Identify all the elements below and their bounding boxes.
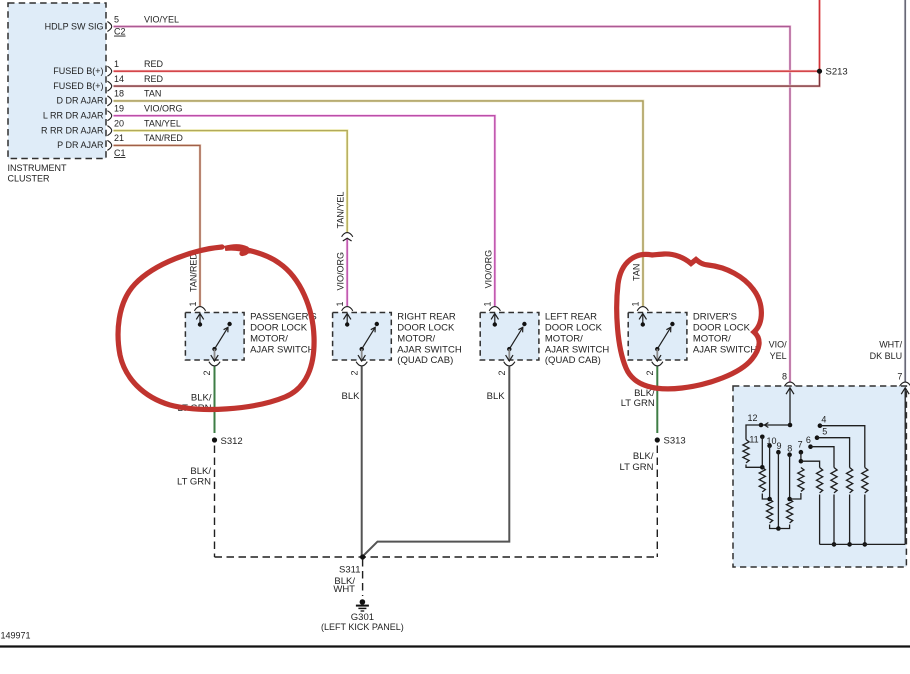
- svg-text:WHT: WHT: [333, 584, 355, 595]
- red annotation circle around driver switch: [617, 254, 762, 389]
- bus junction R7: [832, 542, 837, 547]
- wire BLK/LT GRN passenger switch to S312: [214, 367, 216, 434]
- left rear door lock motor/ajar switch pivot dot: [507, 347, 511, 351]
- svg-text:7: 7: [798, 439, 803, 449]
- right rear door lock motor/ajar switch box: [333, 313, 392, 361]
- svg-text:(LEFT KICK PANEL): (LEFT KICK PANEL): [321, 622, 404, 632]
- right rear door lock motor/ajar switch pin 2 connector: [356, 362, 367, 366]
- svg-text:DOOR LOCK: DOOR LOCK: [250, 323, 308, 334]
- resistor R5: [798, 468, 804, 492]
- svg-text:S312: S312: [221, 436, 243, 447]
- wire R7 bottom to bus: [833, 495, 835, 545]
- wire TAN/YEL pin20 to inline connector: [114, 131, 348, 232]
- cluster pin 21 connector: [107, 140, 111, 150]
- right rear door lock motor/ajar switch switch blade: [362, 327, 376, 349]
- splice S311: [360, 554, 365, 559]
- driver's door lock motor/ajar switch fixed contact dot: [641, 322, 645, 326]
- resistor R7: [831, 468, 837, 493]
- resistor R6: [816, 468, 822, 493]
- pin 7 internal dot: [799, 450, 804, 455]
- wire R1 bottom to node F: [746, 465, 762, 468]
- svg-text:4: 4: [821, 415, 826, 425]
- wire node E to resistor R6: [801, 461, 820, 467]
- node G junction: [767, 497, 772, 502]
- passenger door lock motor/ajar switch pin 2 connector: [209, 362, 220, 366]
- svg-text:TAN: TAN: [144, 89, 161, 99]
- resistor R3: [766, 499, 772, 523]
- svg-text:LEFT REAR: LEFT REAR: [545, 312, 597, 323]
- right rear door lock motor/ajar switch pivot dot: [360, 347, 364, 351]
- svg-text:S213: S213: [826, 67, 848, 78]
- module pin 8 entry arrow: [789, 389, 791, 425]
- resistor R1: [743, 440, 749, 463]
- driver's door lock motor/ajar switch pin 2 connector: [652, 362, 663, 366]
- pin 8 internal dot: [787, 452, 792, 457]
- svg-text:AJAR SWITCH: AJAR SWITCH: [250, 344, 315, 355]
- driver's door lock motor/ajar switch pin 1 connector: [637, 307, 648, 311]
- svg-text:2: 2: [202, 370, 212, 375]
- svg-text:RED: RED: [144, 74, 164, 84]
- inline connector arrow: [343, 238, 352, 241]
- svg-text:2: 2: [497, 370, 507, 375]
- svg-text:9: 9: [776, 441, 781, 451]
- svg-text:BLK/: BLK/: [633, 451, 654, 462]
- node I junction: [787, 497, 792, 502]
- wire RED pin1 to S213: [114, 70, 818, 73]
- svg-text:DK BLU: DK BLU: [870, 351, 903, 361]
- node H junction: [776, 526, 781, 531]
- passenger door lock motor/ajar switch throw contact dot: [227, 322, 231, 326]
- svg-text:MOTOR/: MOTOR/: [693, 333, 731, 344]
- svg-text:2: 2: [645, 370, 655, 375]
- svg-text:VIO/YEL: VIO/YEL: [144, 14, 179, 24]
- wire BLK/LT GRN driver switch to S313: [656, 367, 658, 434]
- right rear door lock motor/ajar switch throw contact dot: [375, 322, 379, 326]
- svg-text:D DR AJAR: D DR AJAR: [56, 96, 104, 106]
- resistor R4: [786, 499, 792, 523]
- svg-text:(QUAD CAB): (QUAD CAB): [397, 355, 453, 366]
- wire RED from top to S213: [818, 0, 821, 70]
- svg-text:TAN/YEL: TAN/YEL: [144, 118, 181, 128]
- resistor R8: [846, 468, 852, 493]
- wire R2 bottom to node G: [762, 494, 769, 500]
- bus junction R9: [863, 542, 868, 547]
- svg-text:VIO/ORG: VIO/ORG: [144, 104, 183, 114]
- svg-text:C2: C2: [114, 27, 126, 37]
- pin 12 dot: [759, 423, 764, 428]
- node E junction: [799, 459, 804, 464]
- wire TAN pin18 to driver's switch: [114, 101, 644, 306]
- svg-text:YEL: YEL: [770, 351, 787, 361]
- instrument cluster box: [8, 3, 106, 159]
- svg-text:AJAR SWITCH: AJAR SWITCH: [693, 344, 758, 355]
- cluster pin 1 connector: [107, 66, 111, 76]
- svg-text:RIGHT REAR: RIGHT REAR: [397, 312, 456, 323]
- svg-text:DOOR LOCK: DOOR LOCK: [693, 323, 751, 334]
- pin 4 dot: [818, 423, 823, 428]
- resistor R2: [759, 467, 765, 492]
- cluster pin 18 connector: [107, 96, 111, 106]
- svg-text:TAN/RED: TAN/RED: [144, 133, 183, 143]
- pin 6 dot: [808, 444, 813, 449]
- svg-text:DOOR LOCK: DOOR LOCK: [545, 323, 603, 334]
- svg-text:21: 21: [114, 133, 124, 143]
- svg-text:5: 5: [822, 426, 827, 436]
- svg-text:149971: 149971: [1, 631, 31, 641]
- ground G301 symbol: [356, 599, 369, 611]
- svg-text:20: 20: [114, 118, 124, 128]
- svg-text:INSTRUMENT: INSTRUMENT: [8, 163, 67, 173]
- passenger door lock motor/ajar switch motor arrow to pin 2: [214, 349, 216, 359]
- svg-text:1: 1: [114, 59, 119, 69]
- svg-text:PASSENGER'S: PASSENGER'S: [250, 312, 317, 323]
- wire pin 10 down to node G: [769, 446, 771, 499]
- resistor R9: [862, 468, 868, 493]
- cluster pin 14 connector: [107, 81, 111, 91]
- svg-text:BLK: BLK: [342, 391, 361, 402]
- passenger door lock motor/ajar switch switch blade: [215, 327, 229, 349]
- cluster pin 20 connector: [107, 126, 111, 136]
- splice S312: [212, 437, 217, 442]
- svg-text:P DR AJAR: P DR AJAR: [57, 140, 104, 150]
- passenger door lock motor/ajar switch fixed contact dot: [198, 322, 202, 326]
- svg-text:RED: RED: [144, 59, 164, 69]
- wire VIO/YEL pin5 to illumination module pin 8: [114, 27, 791, 383]
- wire pin 6 to resistor R7: [811, 447, 835, 468]
- svg-text:6: 6: [806, 435, 811, 445]
- wire BLK left rear switch routed to S311: [364, 367, 510, 556]
- dashed wire S312 down: [214, 446, 216, 558]
- left rear door lock motor/ajar switch switch blade: [509, 327, 523, 349]
- svg-text:LT GRN: LT GRN: [177, 476, 211, 487]
- wire pin 11 down to node F: [761, 437, 763, 468]
- bus junction R8: [847, 542, 852, 547]
- left rear door lock motor/ajar switch box: [480, 313, 539, 361]
- wire TAN/RED pin21 to passenger switch: [114, 145, 201, 306]
- module pin 8 connector: [784, 382, 795, 386]
- right rear door lock motor/ajar switch motor arrow to pin 2: [361, 349, 363, 359]
- inline connector TAN/YEL to VIO/ORG: [342, 233, 353, 237]
- dashed ground bus wire: [215, 556, 658, 558]
- left rear door lock motor/ajar switch pin 1 arrow: [494, 314, 496, 324]
- module pin 7 connector: [900, 382, 910, 386]
- wire R3 bottom to node H: [770, 525, 779, 529]
- wire R5 bottom to node I: [790, 493, 801, 499]
- bottom border line: [0, 645, 910, 647]
- svg-text:14: 14: [114, 74, 124, 84]
- svg-text:11: 11: [749, 435, 758, 445]
- wire pin 5 to resistor R8: [817, 438, 850, 468]
- module pin 7 entry arrow: [904, 389, 906, 544]
- svg-text:TAN/YEL: TAN/YEL: [336, 192, 346, 229]
- pin 11 dot: [760, 435, 765, 440]
- wire pin 4 to resistor R9: [820, 426, 865, 468]
- svg-text:LT GRN: LT GRN: [621, 398, 655, 409]
- svg-text:LT GRN: LT GRN: [620, 462, 654, 473]
- cluster pin 5 connector: [107, 22, 111, 32]
- svg-text:MOTOR/: MOTOR/: [250, 333, 288, 344]
- svg-text:AJAR SWITCH: AJAR SWITCH: [545, 344, 610, 355]
- passenger door lock motor/ajar switch box: [185, 313, 244, 361]
- svg-text:19: 19: [114, 104, 124, 114]
- svg-text:18: 18: [114, 89, 124, 99]
- svg-text:1: 1: [631, 301, 641, 306]
- svg-text:7: 7: [897, 371, 902, 381]
- svg-text:R RR DR AJAR: R RR DR AJAR: [41, 125, 104, 135]
- svg-text:FUSED B(+): FUSED B(+): [53, 81, 103, 91]
- svg-text:CLUSTER: CLUSTER: [8, 174, 51, 184]
- svg-text:AJAR SWITCH: AJAR SWITCH: [397, 344, 462, 355]
- left rear door lock motor/ajar switch fixed contact dot: [493, 322, 497, 326]
- svg-text:10: 10: [766, 436, 776, 446]
- svg-text:1: 1: [188, 301, 198, 306]
- cluster pin 19 connector: [107, 111, 111, 121]
- pin 10 dot: [767, 443, 772, 448]
- svg-text:2: 2: [349, 370, 359, 375]
- svg-text:1: 1: [335, 301, 345, 306]
- driver's door lock motor/ajar switch throw contact dot: [670, 322, 674, 326]
- passenger door lock motor/ajar switch pin 1 arrow: [199, 314, 201, 324]
- svg-text:VIO/: VIO/: [769, 340, 788, 350]
- svg-text:C1: C1: [114, 148, 126, 158]
- splice S313: [655, 437, 660, 442]
- svg-text:BLK: BLK: [487, 391, 506, 402]
- left rear door lock motor/ajar switch pin 2 connector: [504, 362, 515, 366]
- wire BLK right rear switch to S311: [361, 367, 363, 557]
- dashed wire S313 down: [656, 446, 658, 558]
- driver's door lock motor/ajar switch box: [628, 313, 687, 361]
- passenger door lock motor/ajar switch pivot dot: [212, 347, 216, 351]
- svg-text:WHT/: WHT/: [879, 340, 902, 350]
- svg-text:VIO/ORG: VIO/ORG: [483, 250, 493, 289]
- svg-text:DRIVER'S: DRIVER'S: [693, 312, 737, 323]
- svg-text:TAN/RED: TAN/RED: [189, 253, 199, 292]
- dashed wire S311 to ground: [362, 559, 364, 596]
- svg-text:8: 8: [787, 443, 792, 453]
- wire pin 7 down to node E: [800, 452, 802, 461]
- wire VIO/ORG pin19 to left rear switch: [114, 116, 495, 306]
- pin 5 dot: [815, 435, 820, 440]
- svg-text:(QUAD CAB): (QUAD CAB): [545, 355, 601, 366]
- driver's door lock motor/ajar switch switch blade: [657, 327, 671, 349]
- illumination module box: [733, 386, 906, 567]
- wire pin 12 to resistor R1: [746, 425, 761, 440]
- driver's door lock motor/ajar switch pivot dot: [655, 347, 659, 351]
- right rear door lock motor/ajar switch pin 1 connector: [342, 307, 353, 311]
- left rear door lock motor/ajar switch motor arrow to pin 2: [508, 349, 510, 359]
- wire RED pin14 up to S213: [114, 71, 820, 86]
- node A top junction: [788, 423, 793, 428]
- driver's door lock motor/ajar switch motor arrow to pin 2: [656, 349, 658, 359]
- svg-text:L RR DR AJAR: L RR DR AJAR: [43, 111, 104, 121]
- wire VIO/ORG inline connector to right rear switch: [346, 238, 349, 306]
- red annotation circle around passenger switch: [118, 247, 314, 410]
- wire junction A to pin 12: [761, 424, 790, 426]
- node F junction: [760, 465, 765, 470]
- wire pin 9 down to node H: [777, 452, 779, 528]
- svg-text:DOOR LOCK: DOOR LOCK: [397, 323, 455, 334]
- wire WHT/DK BLU from top to illumination module pin 7: [904, 0, 907, 383]
- svg-text:S313: S313: [664, 436, 686, 447]
- module internal bus wire: [820, 543, 906, 545]
- left rear door lock motor/ajar switch pin 1 connector: [489, 307, 500, 311]
- svg-text:FUSED B(+): FUSED B(+): [53, 66, 103, 76]
- svg-text:VIO/ORG: VIO/ORG: [336, 252, 346, 291]
- wire R8 bottom to bus: [849, 495, 851, 545]
- svg-text:5: 5: [114, 14, 119, 24]
- left rear door lock motor/ajar switch throw contact dot: [522, 322, 526, 326]
- wire R6 bottom to ground bus: [819, 495, 821, 545]
- arrow toward pin 12: [765, 422, 769, 427]
- svg-text:MOTOR/: MOTOR/: [397, 333, 435, 344]
- splice S213: [817, 69, 822, 74]
- right rear door lock motor/ajar switch pin 1 arrow: [346, 314, 348, 324]
- svg-text:TAN: TAN: [631, 264, 641, 281]
- wire R9 bottom to bus: [864, 495, 866, 545]
- driver's door lock motor/ajar switch pin 1 arrow: [642, 314, 644, 324]
- right rear door lock motor/ajar switch fixed contact dot: [345, 322, 349, 326]
- svg-text:8: 8: [782, 371, 787, 381]
- passenger door lock motor/ajar switch pin 1 connector: [194, 307, 205, 311]
- svg-text:HDLP SW SIG: HDLP SW SIG: [45, 21, 104, 31]
- svg-text:S311: S311: [339, 564, 360, 575]
- pin 9 dot: [776, 450, 781, 455]
- wire pin 8 down to node I: [789, 455, 791, 499]
- wire R4 bottom to node H: [778, 525, 789, 529]
- svg-text:12: 12: [747, 413, 757, 423]
- svg-text:MOTOR/: MOTOR/: [545, 333, 583, 344]
- svg-text:1: 1: [483, 301, 493, 306]
